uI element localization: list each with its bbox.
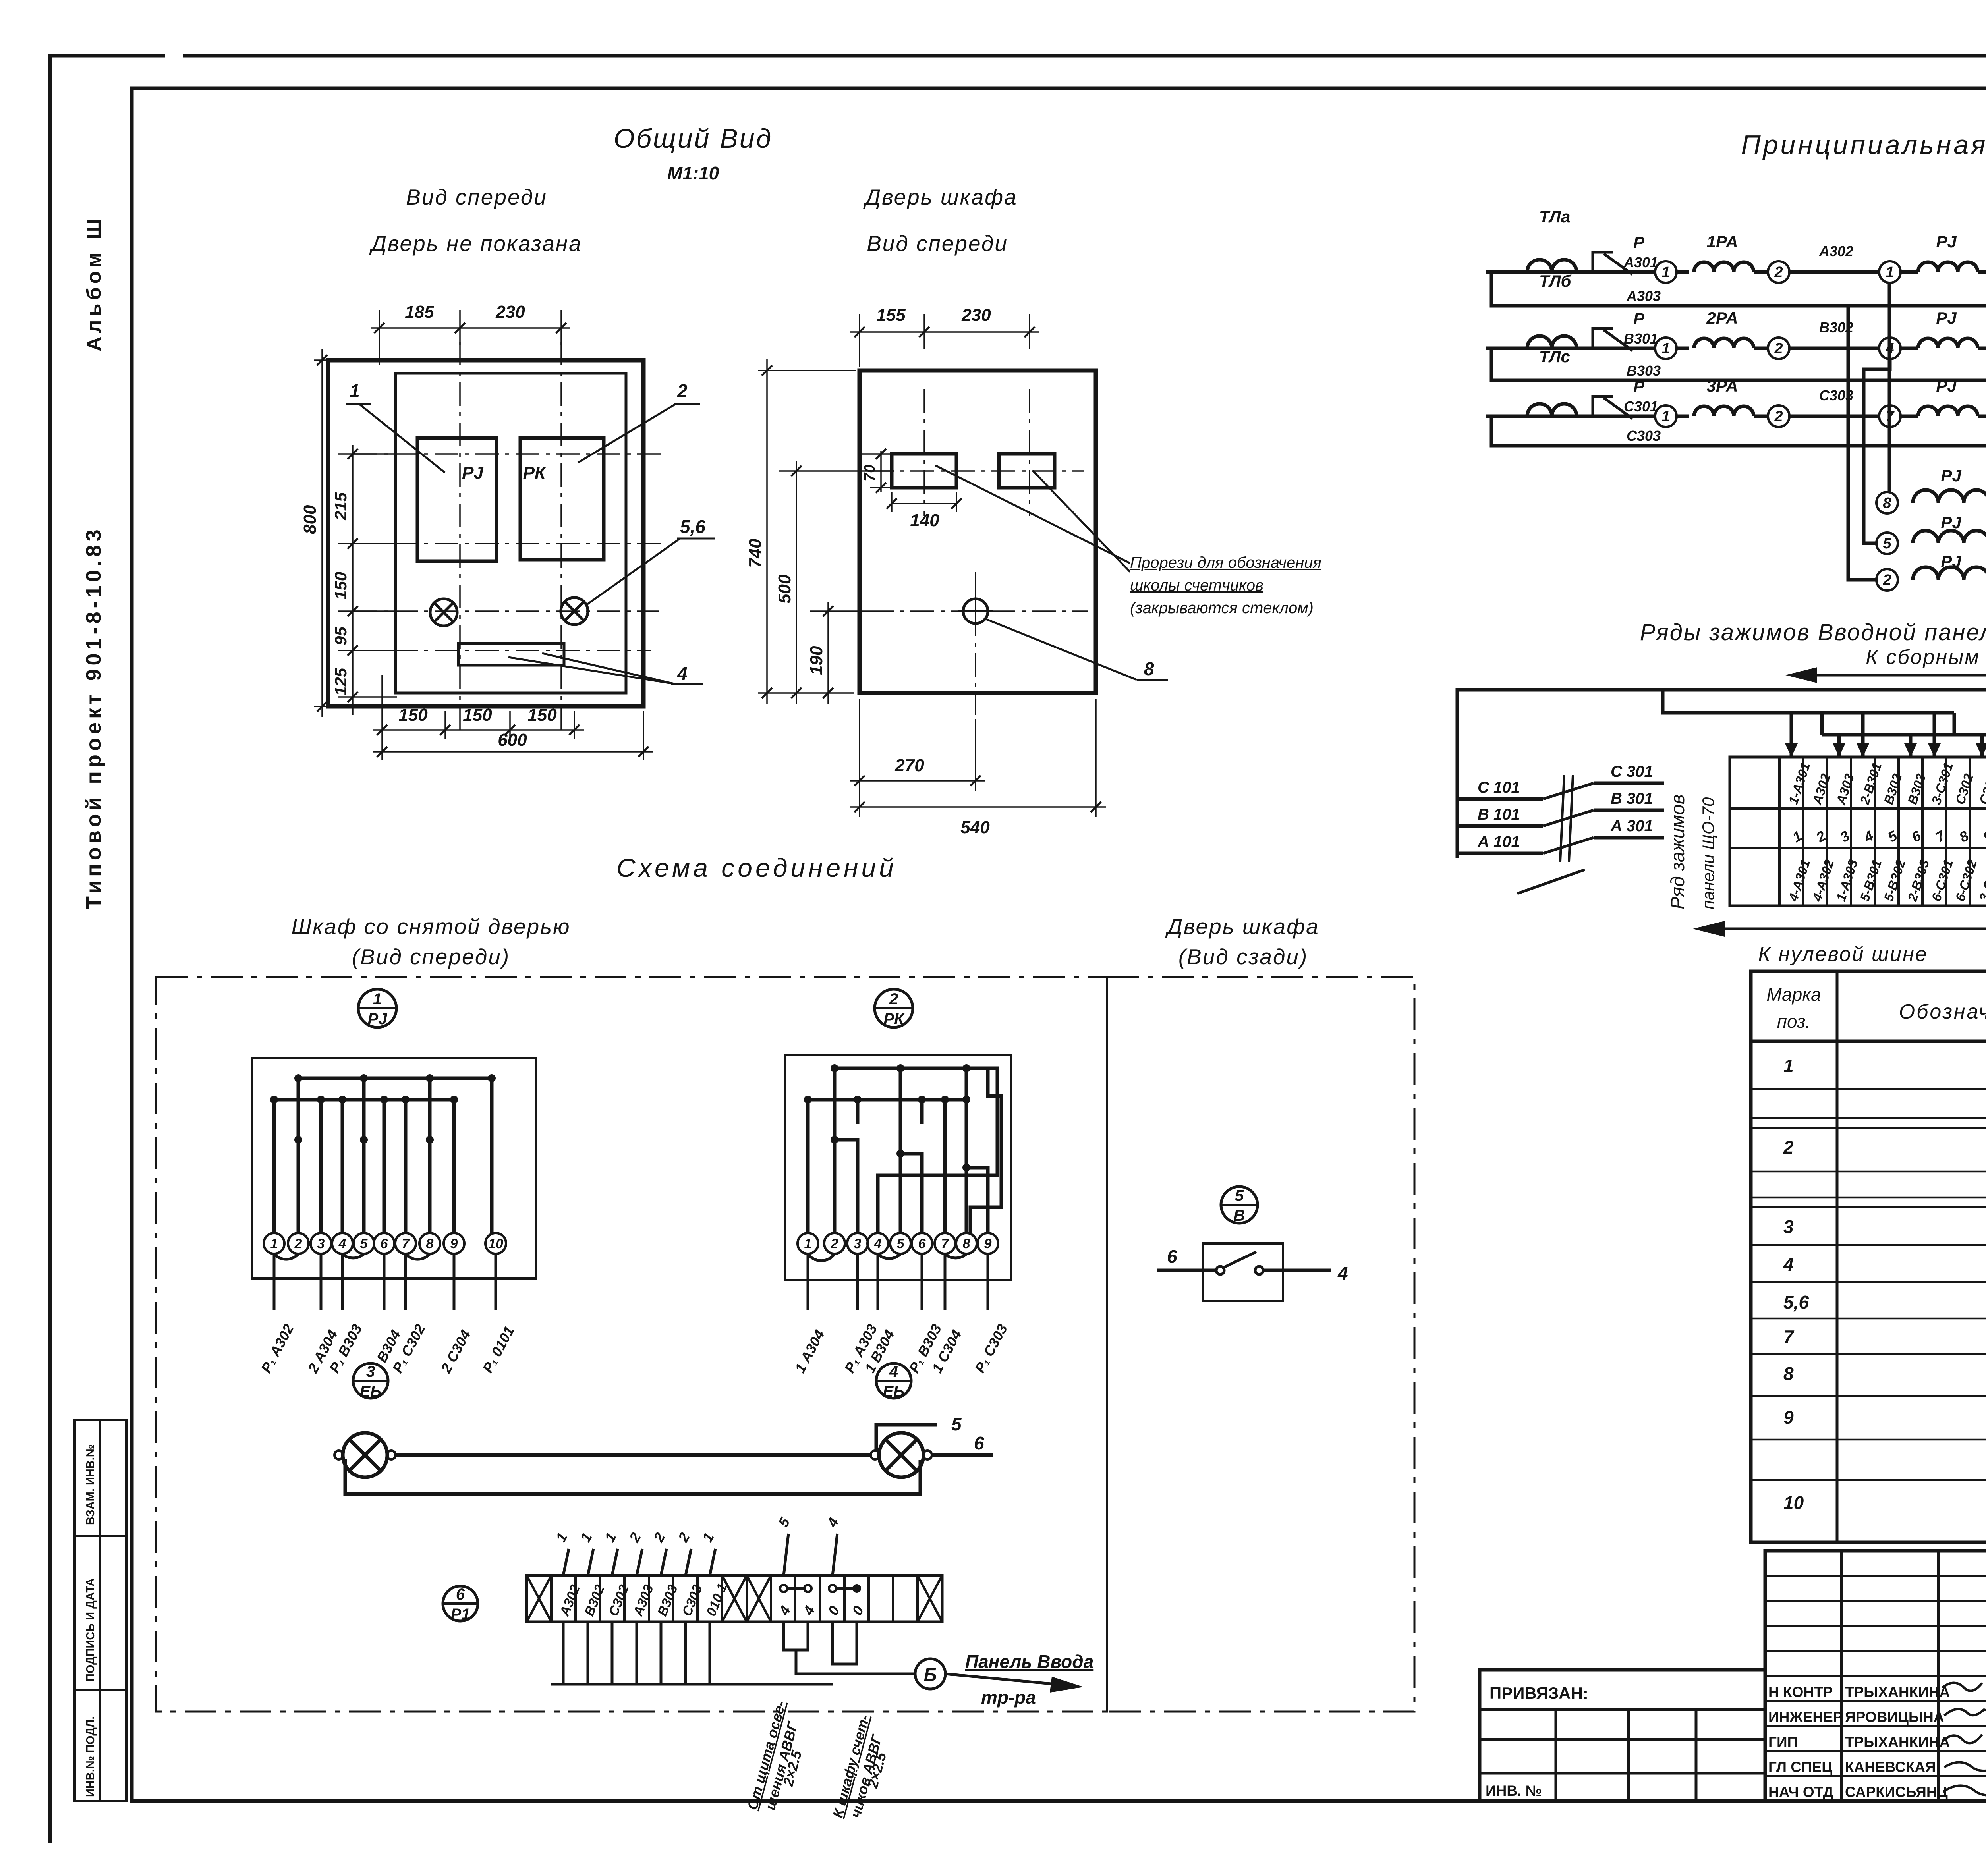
svg-text:270: 270: [894, 756, 924, 775]
PJ outgoing wire terminal 10: [495, 1254, 497, 1310]
PK terminal 6: [912, 1233, 932, 1254]
door dim 540: [1095, 699, 1097, 817]
svg-text:Ряды зажимов Вводной панели ЩО: Ряды зажимов Вводной панели ЩО-70: [1640, 620, 1986, 645]
PJ outgoing wire terminal 9: [453, 1254, 456, 1310]
parts specification table: [1751, 971, 1986, 1542]
PJ wire to terminal 8: [428, 1078, 432, 1233]
PJ terminal 1: [264, 1233, 284, 1254]
PJ terminal 7: [395, 1233, 416, 1254]
PJ internal bus 2: [274, 1098, 450, 1102]
PK outgoing wire terminal 6: [921, 1254, 923, 1310]
svg-text:Марка: Марка: [1766, 984, 1821, 1005]
PK outgoing wire terminal 9: [987, 1254, 989, 1310]
svg-text:140: 140: [910, 511, 939, 530]
dimension chain 215/150/95/125: [352, 445, 354, 715]
svg-text:РЈ: РЈ: [1941, 552, 1962, 571]
dimension 800 left: [314, 359, 334, 361]
svg-text:Б: Б: [924, 1664, 937, 1685]
svg-text:ПОДПИСЬ И ДАТА: ПОДПИСЬ И ДАТА: [84, 1578, 97, 1682]
PJ jumper hooks: [274, 1254, 430, 1259]
terminal circle 2 row 1: [1768, 261, 1789, 283]
strip tall stub 5: [784, 1534, 788, 1575]
PJ wire to terminal 4: [341, 1100, 344, 1233]
svg-text:1: 1: [270, 1236, 278, 1251]
svg-text:ИНВ. №: ИНВ. №: [1486, 1783, 1542, 1799]
main bus wire top: [1457, 690, 1986, 858]
svg-text:В301: В301: [1624, 330, 1658, 347]
lamp 6 symbol: [561, 598, 588, 625]
meter PJ node circle row 1: [1879, 261, 1901, 283]
PK terminal 1: [798, 1233, 818, 1254]
feeder stub C301: [1594, 782, 1664, 785]
svg-text:К сборным шинам: К сборным шинам: [1866, 646, 1986, 669]
feeder diagonals: [1517, 783, 1594, 894]
svg-text:Н КОНТР: Н КОНТР: [1768, 1684, 1833, 1700]
svg-text:1: 1: [1661, 340, 1670, 357]
svg-text:7: 7: [1783, 1326, 1795, 1347]
svg-text:В 101: В 101: [1478, 806, 1520, 823]
disconnect switch P row 1: [1593, 252, 1613, 272]
svg-text:Типовой проект 901-8-10.83: Типовой проект 901-8-10.83: [82, 526, 106, 909]
svg-text:1РА: 1РА: [1706, 232, 1738, 251]
svg-text:РЈ: РЈ: [368, 1010, 388, 1028]
PK internal bus 2: [808, 1098, 966, 1102]
svg-text:С303: С303: [1627, 428, 1661, 444]
svg-text:А301: А301: [1623, 254, 1658, 270]
position circle 1/PJ: [358, 989, 396, 1028]
svg-text:4: 4: [874, 1236, 882, 1251]
terminal circle 2 row 3: [1768, 405, 1789, 427]
wires from strip cells 10-13 down: [784, 1622, 808, 1650]
svg-text:ТЛа: ТЛа: [1539, 207, 1570, 226]
left margin bottom boxes: [75, 1420, 126, 1801]
PK wire t4: [900, 1068, 922, 1233]
svg-text:ТРЫХАНКИНА: ТРЫХАНКИНА: [1845, 1684, 1950, 1700]
door dim 740: [758, 370, 856, 371]
svg-text:500: 500: [775, 574, 794, 604]
terminal strip table: [1730, 757, 1986, 906]
svg-text:ВЗАМ. ИНВ.№: ВЗАМ. ИНВ.№: [84, 1444, 97, 1525]
svg-text:В: В: [1234, 1207, 1245, 1224]
svg-text:РК: РК: [523, 463, 547, 483]
svg-text:150: 150: [331, 572, 350, 600]
meter PJ rectangle: [417, 438, 496, 561]
lamp E1 left: [334, 1433, 396, 1477]
svg-text:Р: Р: [1633, 233, 1645, 252]
svg-text:1: 1: [1661, 408, 1670, 425]
PJ terminal 4: [332, 1233, 353, 1254]
svg-text:РЈ: РЈ: [1941, 466, 1962, 485]
door switch hole: [958, 594, 993, 628]
svg-text:Ряд зажимов: Ряд зажимов: [1667, 794, 1688, 909]
cabinet boundary dash-dot box: [156, 977, 1107, 1712]
strip incoming wire 7: [710, 1549, 715, 1575]
svg-text:(Вид спереди): (Вид спереди): [352, 944, 510, 969]
PJ outgoing wire terminal 4: [341, 1254, 344, 1310]
svg-text:2: 2: [1882, 572, 1891, 589]
svg-text:230: 230: [961, 305, 991, 325]
svg-text:В 301: В 301: [1611, 790, 1653, 807]
arrow panel vvoda: [945, 1674, 1072, 1686]
cabinet body outer: [328, 360, 643, 706]
strip incoming wire 5: [661, 1549, 667, 1575]
terminal circle 2 row 2: [1768, 338, 1789, 359]
svg-text:2: 2: [1783, 1137, 1794, 1158]
svg-text:РЈ: РЈ: [1936, 376, 1957, 395]
svg-text:Вид спереди: Вид спереди: [406, 185, 547, 209]
svg-text:(Вид сзади): (Вид сзади): [1178, 944, 1308, 969]
svg-text:600: 600: [498, 730, 527, 750]
svg-text:(закрываются стеклом): (закрываются стеклом): [1130, 599, 1314, 617]
svg-text:1: 1: [373, 990, 382, 1008]
lamp wire 6: [932, 1453, 993, 1457]
terminal strip outline: [527, 1575, 942, 1622]
disconnect switch P row 2: [1593, 328, 1613, 348]
svg-text:2: 2: [1774, 264, 1783, 281]
svg-text:8: 8: [1783, 1363, 1794, 1384]
signatures squiggles: [1942, 1683, 1986, 1807]
door dim 190: [827, 602, 829, 704]
door dim 155/230: [859, 314, 860, 367]
PJ outgoing wire terminal 7: [404, 1254, 407, 1310]
PK jumper hooks: [808, 1254, 966, 1261]
svg-text:230: 230: [495, 302, 525, 322]
second bus wire: [1663, 690, 1954, 757]
PK terminal 4: [867, 1233, 888, 1254]
svg-text:740: 740: [746, 538, 765, 568]
svg-text:А302: А302: [1819, 243, 1853, 259]
svg-text:1: 1: [1661, 264, 1670, 281]
svg-text:С 101: С 101: [1478, 779, 1520, 796]
svg-text:1: 1: [1783, 1056, 1794, 1076]
svg-text:6: 6: [456, 1586, 465, 1603]
svg-text:2: 2: [294, 1236, 302, 1251]
relay coil 1&#1056;&#1040;: [1694, 262, 1754, 272]
arrow to null bus: [1704, 906, 1986, 929]
svg-text:2РА: 2РА: [1706, 309, 1738, 327]
node B circle lower: [915, 1659, 945, 1689]
svg-text:ГИП: ГИП: [1768, 1734, 1798, 1750]
return wire row 1: [1491, 272, 1986, 306]
PJ terminal 10: [485, 1233, 506, 1254]
PJ voltage coil 8: [1913, 490, 1986, 503]
PJ outgoing wire terminal 1: [273, 1254, 276, 1310]
cabinet/door divider line: [1106, 977, 1108, 1712]
svg-text:А 301: А 301: [1610, 817, 1653, 835]
wire drop to PJ voltage coil 8: [1888, 282, 1891, 492]
lamp E2 right: [871, 1433, 932, 1477]
svg-text:ЕЬ: ЕЬ: [883, 1383, 905, 1400]
terminal circle 1 row 2: [1655, 338, 1677, 359]
svg-text:Шкаф со снятой дверью: Шкаф со снятой дверью: [292, 914, 571, 939]
PJ wire to terminal 5: [362, 1078, 366, 1233]
strip incoming wire 2: [588, 1549, 593, 1575]
cable mark slashes: [1560, 775, 1573, 862]
svg-text:Р: Р: [1633, 377, 1645, 396]
svg-text:10: 10: [488, 1236, 503, 1251]
PJ voltage terminal 5: [1876, 533, 1898, 554]
feeder stub A301: [1594, 836, 1664, 840]
svg-text:5: 5: [1235, 1187, 1244, 1204]
svg-text:125: 125: [331, 668, 350, 696]
svg-text:К нулевой шине: К нулевой шине: [1758, 943, 1928, 966]
strip outgoing wire 3: [611, 1622, 614, 1684]
third bus wire: [1822, 713, 1986, 757]
strip incoming wire 4: [637, 1549, 642, 1575]
svg-text:7: 7: [941, 1236, 950, 1251]
svg-text:4: 4: [1337, 1263, 1348, 1283]
lamp 5 symbol: [430, 599, 457, 626]
svg-text:тр-ра: тр-ра: [981, 1687, 1036, 1708]
svg-text:ИНЖЕНЕР: ИНЖЕНЕР: [1768, 1709, 1843, 1725]
PK wire t6: [943, 1100, 947, 1233]
lamp return wire: [345, 1459, 920, 1494]
svg-text:ЯРОВИЦЫНА: ЯРОВИЦЫНА: [1845, 1709, 1944, 1725]
cabinet panel inner: [396, 373, 626, 693]
svg-text:6: 6: [381, 1236, 388, 1251]
PJ junction dots mid: [294, 1136, 302, 1144]
switch wire 4: [1263, 1269, 1331, 1272]
PK terminal 7: [935, 1233, 955, 1254]
door body: [860, 371, 1096, 693]
svg-text:70: 70: [862, 465, 878, 481]
svg-text:7: 7: [402, 1236, 410, 1251]
title block middle grid: [1765, 1551, 1986, 1801]
wire between lamps: [396, 1453, 871, 1457]
PJ wire to terminal 7: [404, 1100, 408, 1233]
svg-text:800: 800: [300, 505, 320, 534]
svg-text:2: 2: [677, 380, 688, 401]
feeder stub B301: [1594, 809, 1664, 812]
svg-text:Дверь шкафа: Дверь шкафа: [863, 185, 1017, 209]
svg-text:6: 6: [1167, 1246, 1177, 1267]
terminal circle 1 row 3: [1655, 405, 1677, 427]
svg-text:Р1: Р1: [451, 1606, 470, 1623]
svg-text:150: 150: [527, 705, 557, 725]
svg-text:ТЛс: ТЛс: [1539, 347, 1570, 366]
svg-text:9: 9: [1783, 1407, 1794, 1428]
feeder line B101: [1457, 824, 1543, 828]
leader lines to slots annotation: [935, 465, 1130, 563]
svg-text:ГЛ СПЕЦ: ГЛ СПЕЦ: [1768, 1759, 1832, 1775]
PJ voltage coil 5: [1913, 531, 1986, 543]
svg-text:9: 9: [984, 1236, 992, 1251]
svg-text:Р: Р: [1633, 309, 1645, 328]
svg-text:Дверь не показана: Дверь не показана: [369, 231, 582, 256]
svg-text:2: 2: [1774, 408, 1783, 425]
svg-text:3РА: 3РА: [1706, 376, 1738, 395]
dimension line 185/230 top of cabinet: [379, 310, 380, 365]
svg-text:215: 215: [331, 492, 350, 521]
svg-text:РЈ: РЈ: [1941, 513, 1962, 532]
svg-text:150: 150: [398, 705, 428, 725]
PJ voltage terminal 8: [1876, 492, 1898, 513]
PJ internal bus 1: [298, 1078, 492, 1233]
relay coil 3&#1056;&#1040;: [1694, 406, 1754, 416]
svg-text:5,6: 5,6: [1783, 1292, 1809, 1312]
svg-text:3: 3: [854, 1236, 862, 1251]
svg-text:8: 8: [1144, 658, 1154, 679]
svg-text:190: 190: [807, 646, 826, 675]
svg-text:Прорези для обозначения: Прорези для обозначения: [1130, 554, 1321, 571]
strip incoming wire 6: [686, 1549, 691, 1575]
phase wire row 2: [1486, 347, 1655, 350]
svg-text:6: 6: [974, 1433, 984, 1453]
meter PJ node circle row 3: [1879, 405, 1901, 427]
svg-text:ТРЫХАНКИНА: ТРЫХАНКИНА: [1845, 1734, 1950, 1750]
strip jumper link 2: [829, 1585, 853, 1592]
position circle 2/PK: [875, 989, 913, 1028]
PK wire t1: [806, 1100, 810, 1233]
door boundary dash-dot box: [1107, 977, 1414, 1712]
svg-text:САРКИСЬЯНЦ: САРКИСЬЯНЦ: [1845, 1784, 1948, 1800]
svg-text:Схема соединений: Схема соединений: [616, 853, 897, 882]
svg-text:РЈ: РЈ: [1936, 232, 1957, 251]
strip outgoing wire 4: [636, 1622, 638, 1684]
meter PJ node circle row 2: [1879, 338, 1901, 359]
door centerlines: [870, 389, 1088, 715]
svg-text:ПРИВЯЗАН:: ПРИВЯЗАН:: [1489, 1684, 1588, 1702]
svg-text:2: 2: [1774, 340, 1783, 357]
PK wire t2: [835, 1068, 858, 1233]
lamp wire 5: [876, 1425, 937, 1450]
svg-text:С 301: С 301: [1611, 763, 1653, 780]
svg-text:185: 185: [405, 302, 434, 322]
PK terminal 3: [847, 1233, 868, 1254]
strip jumper link 1: [780, 1585, 811, 1592]
PJ terminal 9: [444, 1233, 464, 1254]
PK outgoing wire terminal 3: [856, 1254, 859, 1310]
svg-text:1: 1: [804, 1236, 812, 1251]
dimension 600 bottom: [381, 739, 383, 760]
strip outgoing wire 2: [587, 1622, 589, 1684]
svg-text:А303: А303: [1626, 288, 1661, 304]
svg-text:2: 2: [889, 990, 898, 1008]
phase wire row 1: [1486, 270, 1655, 274]
strip tall stub 4: [833, 1534, 837, 1575]
PJ terminal 5: [354, 1233, 374, 1254]
PK wire t5: [900, 1100, 922, 1233]
svg-text:3: 3: [366, 1363, 375, 1380]
position circle 3/E1: [353, 1363, 388, 1400]
return wire row 3: [1491, 416, 1986, 446]
PJ voltage coil 2: [1913, 567, 1986, 580]
disconnect switch P row 3: [1593, 396, 1613, 416]
svg-text:10: 10: [1783, 1492, 1804, 1513]
svg-text:2: 2: [831, 1236, 838, 1251]
door dim 140: [891, 492, 893, 512]
svg-text:3: 3: [317, 1236, 325, 1251]
terminal circle 1 row 1: [1655, 261, 1677, 283]
svg-text:1: 1: [1886, 264, 1894, 281]
svg-text:8: 8: [1883, 495, 1891, 511]
PK wire t7: [966, 1068, 988, 1233]
svg-text:8: 8: [963, 1236, 970, 1251]
svg-text:ИНВ.№ ПОДЛ.: ИНВ.№ ПОДЛ.: [84, 1716, 97, 1797]
svg-text:5: 5: [897, 1236, 905, 1251]
svg-text:В303: В303: [1627, 363, 1661, 379]
PK terminal 5: [890, 1233, 911, 1254]
svg-text:ЕЬ: ЕЬ: [360, 1383, 382, 1400]
strip outgoing wire 7: [709, 1622, 711, 1684]
PK wire t9 down: [970, 1068, 1001, 1233]
strip outgoing wire 1: [562, 1622, 565, 1684]
PK terminal 9: [978, 1233, 998, 1254]
return wire row 2: [1491, 348, 1986, 380]
svg-text:РЈ: РЈ: [462, 463, 484, 483]
feeder line C101: [1457, 797, 1543, 801]
PJ outgoing wire terminal 6: [383, 1254, 386, 1310]
meter PK rectangle: [520, 438, 604, 560]
PJ wiring box: [252, 1058, 536, 1278]
svg-text:540: 540: [960, 818, 990, 837]
svg-text:4: 4: [677, 663, 688, 684]
svg-text:поз.: поз.: [1777, 1011, 1811, 1032]
svg-text:Общий Вид: Общий Вид: [614, 124, 773, 154]
svg-text:9: 9: [450, 1236, 458, 1251]
PK terminal 2: [824, 1233, 845, 1254]
position circle 4/E1: [876, 1363, 911, 1400]
svg-text:КАНЕВСКАЯ: КАНЕВСКАЯ: [1845, 1759, 1936, 1775]
svg-text:155: 155: [876, 305, 906, 325]
PK terminal 8: [956, 1233, 977, 1254]
meter PJ current coil row 3: [1918, 406, 1978, 416]
svg-text:Дверь шкафа: Дверь шкафа: [1165, 914, 1319, 939]
strip incoming wire 3: [612, 1549, 618, 1575]
svg-text:ТЛб: ТЛб: [1539, 272, 1572, 290]
relay coil 2&#1056;&#1040;: [1694, 338, 1754, 348]
PJ terminal 8: [419, 1233, 440, 1254]
cable slot rectangle: [458, 643, 564, 665]
PJ wire to terminal 2: [297, 1078, 300, 1233]
svg-text:панели ЩО-70: панели ЩО-70: [1699, 797, 1717, 909]
PJ wire to terminal 6: [383, 1100, 386, 1233]
wire drop to PJ voltage coil 5: [1864, 359, 1890, 543]
svg-text:5: 5: [951, 1414, 962, 1434]
dimension 150x3 bottom: [381, 675, 383, 739]
wire drop to PJ voltage coil 2: [1848, 306, 1877, 580]
svg-text:РЈ: РЈ: [1936, 309, 1957, 327]
door dim 500: [796, 461, 797, 704]
svg-text:150: 150: [463, 705, 492, 725]
svg-text:А 101: А 101: [1477, 833, 1520, 851]
PJ terminal 3: [311, 1233, 331, 1254]
svg-text:РК: РК: [883, 1010, 905, 1028]
svg-text:8: 8: [426, 1236, 434, 1251]
PK wire t3: [835, 1100, 858, 1233]
PK wiring box: [785, 1055, 1011, 1280]
strip incoming wire 1: [563, 1549, 569, 1575]
door dim 270: [859, 699, 860, 791]
switch box: [1203, 1243, 1283, 1301]
PK outgoing wire terminal 4: [877, 1254, 879, 1310]
position circle 6/P1: [443, 1586, 478, 1623]
PJ outgoing wire terminal 3: [320, 1254, 323, 1310]
svg-text:Принципиальная схема: Принципиальная схема: [1741, 130, 1986, 160]
svg-text:5,6: 5,6: [680, 516, 705, 537]
svg-text:Панель Ввода: Панель Ввода: [965, 1651, 1093, 1672]
svg-text:М1:10: М1:10: [667, 163, 719, 183]
PK internal bus 1: [835, 1068, 997, 1233]
svg-text:С301: С301: [1624, 398, 1658, 415]
switch wire 6: [1157, 1269, 1216, 1272]
PJ wire to terminal 1: [272, 1100, 276, 1233]
door dim 70: [880, 451, 882, 492]
svg-text:5: 5: [360, 1236, 368, 1251]
strip bottom bus: [551, 1683, 833, 1686]
crossed spare cells: [527, 1575, 551, 1622]
privyazan table: [1480, 1670, 1765, 1801]
